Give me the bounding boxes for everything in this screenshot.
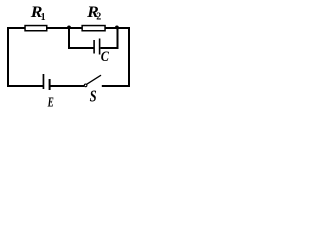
node junction dot right xyxy=(115,26,119,30)
resistor R1 xyxy=(25,26,47,31)
capacitor C left plate xyxy=(93,40,95,54)
wire capacitor branch left vertical xyxy=(68,28,70,49)
resistor R2 xyxy=(82,26,105,31)
svg-text:S: S xyxy=(90,87,97,106)
switch S blade xyxy=(87,75,101,84)
wire bottom right segment xyxy=(102,85,130,87)
node junction dot left xyxy=(67,26,71,30)
wire top xyxy=(7,27,130,29)
wire right xyxy=(128,27,130,87)
wire bottom middle segment xyxy=(50,85,85,87)
svg-text:1: 1 xyxy=(41,12,46,23)
battery E short plate xyxy=(49,79,51,90)
switch S pivot circle xyxy=(84,84,87,87)
wire left xyxy=(7,27,9,87)
svg-text:E: E xyxy=(47,94,54,109)
svg-text:2: 2 xyxy=(96,12,101,23)
wire capacitor branch right vertical xyxy=(117,28,119,49)
svg-text:C: C xyxy=(101,49,110,65)
capacitor C right plate xyxy=(99,39,101,55)
wire capacitor branch right horizontal xyxy=(101,47,119,49)
wire capacitor branch left horizontal xyxy=(68,47,94,49)
battery E long plate xyxy=(43,74,45,89)
wire bottom left segment xyxy=(7,85,44,87)
